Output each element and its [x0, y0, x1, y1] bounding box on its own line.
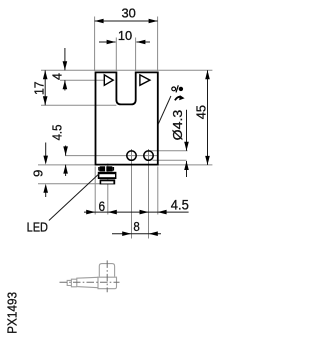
dimension 4.5 right	[128, 197, 189, 214]
svg-text:Ø4.3: Ø4.3	[170, 110, 185, 141]
leader line to switch symbol	[158, 96, 171, 124]
dimension 9	[30, 143, 48, 198]
side view housing body	[67, 264, 116, 289]
dimension 17	[31, 70, 47, 105]
dimension 6	[84, 199, 128, 215]
extension line hole centers horizontal	[65, 155, 158, 157]
extension line connector bottom	[38, 183, 100, 185]
extension line slot bottom	[41, 104, 116, 106]
dimension 4	[49, 48, 67, 91]
dimension 10	[99, 29, 150, 45]
body outline with slot	[96, 72, 158, 164]
svg-text:30: 30	[122, 6, 136, 20]
dimension 30	[95, 6, 158, 23]
svg-text:45: 45	[194, 105, 209, 119]
mounting hole left	[127, 151, 136, 160]
switch arc arrow	[175, 97, 181, 100]
svg-text:17: 17	[31, 81, 46, 95]
svg-text:4.5: 4.5	[171, 197, 189, 212]
svg-text:10: 10	[118, 29, 132, 43]
extension line top long y70	[41, 69, 212, 71]
emitter triangle right	[140, 75, 150, 85]
mounting hole right	[144, 151, 153, 160]
extension line body left vertical bottom	[94, 167, 96, 215]
svg-text:6: 6	[99, 199, 106, 214]
svg-text:4.5: 4.5	[49, 125, 64, 141]
svg-text:9: 9	[30, 170, 45, 177]
side view center line horizontal	[60, 281, 120, 283]
emitter triangle left	[104, 75, 113, 85]
dimension diameter 4.3	[170, 110, 189, 177]
extension line hole bottom tangent	[153, 159, 187, 161]
svg-text:4: 4	[49, 73, 64, 80]
dimension 8	[112, 219, 161, 236]
light-dark symbol o/dot	[172, 85, 183, 92]
extension line body right vertical top	[157, 17, 159, 72]
extension line body left vertical top	[94, 17, 96, 72]
dimension 45	[194, 70, 210, 165]
extension line body right vertical bottom	[157, 167, 159, 215]
extension line hole1 center vertical	[131, 149, 133, 239]
connector block under body	[98, 166, 117, 184]
dimension 4.5 left	[49, 125, 68, 176]
side view center line vertical	[106, 260, 108, 292]
extension line connector center vertical	[107, 164, 109, 215]
extension line body bottom right	[158, 164, 212, 166]
extension line slot right vertical	[135, 38, 137, 72]
extension line body bottom left	[38, 164, 95, 166]
extension line optical axis	[60, 79, 104, 81]
extension line hole2 center vertical	[148, 149, 150, 239]
svg-text:LED: LED	[27, 220, 48, 235]
extension line hole top tangent	[150, 150, 188, 152]
extension line slot left vertical	[115, 38, 117, 72]
svg-text:PX1493: PX1493	[6, 292, 20, 334]
LED leader line	[49, 174, 99, 221]
svg-text:8: 8	[133, 219, 139, 234]
